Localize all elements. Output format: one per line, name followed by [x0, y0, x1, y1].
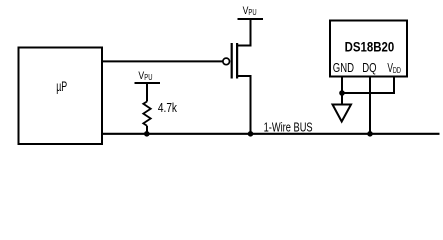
- svg-text:DS18B20: DS18B20: [345, 39, 395, 55]
- svg-text:4.7k: 4.7k: [158, 100, 177, 115]
- svg-text:PU: PU: [248, 8, 256, 17]
- svg-text:DQ: DQ: [362, 60, 376, 75]
- svg-text:1-Wire BUS: 1-Wire BUS: [264, 120, 313, 134]
- svg-text:GND: GND: [333, 60, 354, 75]
- svg-text:PU: PU: [144, 73, 152, 82]
- svg-text:DD: DD: [393, 66, 401, 75]
- svg-text:µP: µP: [56, 78, 67, 94]
